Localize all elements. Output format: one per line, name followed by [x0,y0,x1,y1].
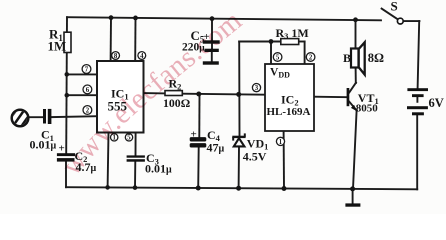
svg-text:0.01μ: 0.01μ [145,161,172,175]
svg-text:5: 5 [276,55,280,62]
svg-text:2: 2 [86,108,90,115]
svg-text:47μ: 47μ [207,140,225,154]
svg-text:S: S [391,0,398,13]
svg-text:0.01μ: 0.01μ [30,137,57,151]
svg-text:8: 8 [114,53,118,60]
svg-text:5: 5 [127,135,131,142]
svg-text:1: 1 [279,139,283,146]
svg-text:HL-169A: HL-169A [267,106,311,118]
svg-text:4.5V: 4.5V [243,149,267,163]
svg-text:1M: 1M [48,39,67,54]
svg-text:4: 4 [140,53,144,60]
svg-text:8050: 8050 [356,102,379,114]
svg-text:6V: 6V [429,96,444,110]
svg-text:100Ω: 100Ω [163,96,190,110]
svg-text:7: 7 [85,67,89,74]
svg-text:8Ω: 8Ω [368,51,384,65]
svg-text:3: 3 [255,85,259,92]
svg-text:B: B [343,51,351,65]
svg-text:6: 6 [86,87,90,94]
svg-text:2: 2 [309,55,313,62]
svg-text:R3 1M: R3 1M [276,26,309,41]
svg-text:+: + [191,129,197,141]
